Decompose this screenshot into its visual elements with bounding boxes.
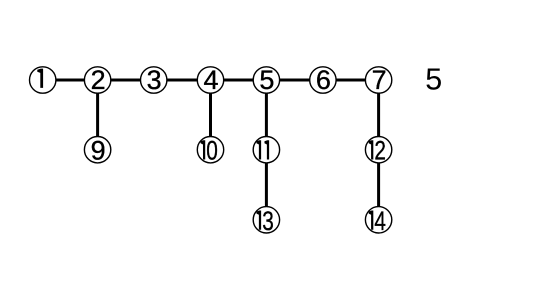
edge 5-6 <box>266 79 323 82</box>
edge 3-4 <box>154 79 211 82</box>
node 3 circle <box>141 67 167 93</box>
edge 2-3 <box>98 79 154 82</box>
node 2 circle <box>84 67 110 93</box>
edge 4-10 <box>209 80 212 150</box>
node 11 label <box>256 140 269 159</box>
node 11 circle <box>253 137 279 163</box>
edge 5-11 <box>265 80 268 150</box>
svg-text:2: 2 <box>91 65 106 95</box>
node 10 label <box>201 136 218 166</box>
svg-text:9: 9 <box>91 136 106 166</box>
svg-text:4: 4 <box>203 65 218 95</box>
edge 7-12 <box>377 80 380 150</box>
node 4 circle <box>197 67 223 93</box>
svg-text:2: 2 <box>374 136 386 166</box>
svg-text:6: 6 <box>316 65 331 95</box>
node 9 circle <box>84 137 110 163</box>
edge 1-2 <box>43 79 98 82</box>
node 5 circle <box>253 67 279 93</box>
node 13 circle <box>253 207 279 233</box>
node 12 circle <box>365 137 391 163</box>
edge 4-5 <box>211 79 267 82</box>
svg-text:7: 7 <box>372 65 387 95</box>
node 1 circle <box>30 67 56 93</box>
node 14 label <box>369 206 386 236</box>
svg-text:3: 3 <box>262 206 274 236</box>
edge 11-13 <box>265 150 268 220</box>
node 13 label <box>256 206 273 236</box>
svg-text:4: 4 <box>374 206 386 236</box>
svg-text:5: 5 <box>259 65 274 95</box>
edge 6-7 <box>323 79 379 82</box>
edge 12-14 <box>377 150 380 220</box>
svg-text:5: 5 <box>425 63 442 97</box>
node 1 label <box>37 69 43 88</box>
svg-text:0: 0 <box>206 136 218 166</box>
node 14 circle <box>365 207 391 233</box>
svg-text:3: 3 <box>147 65 162 95</box>
node 12 label <box>369 136 386 166</box>
node 10 circle <box>197 137 223 163</box>
node 6 circle <box>310 67 336 93</box>
node 7 circle <box>365 67 391 93</box>
edge 2-9 <box>96 80 99 150</box>
